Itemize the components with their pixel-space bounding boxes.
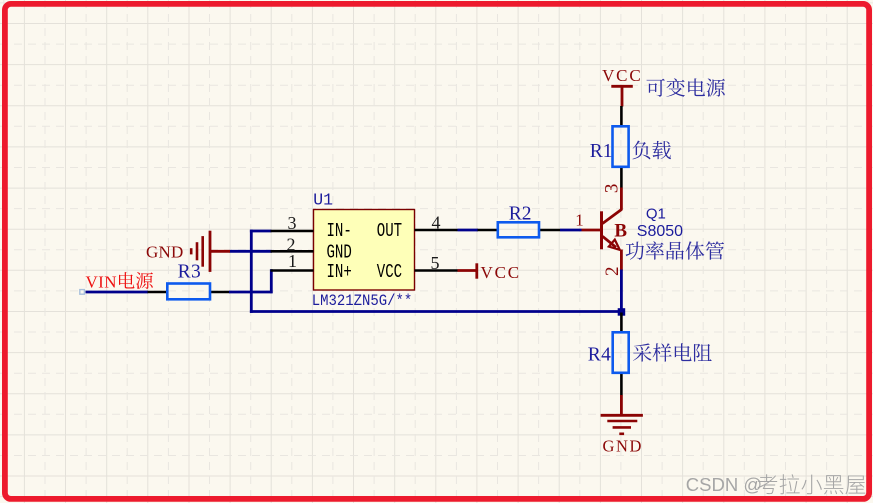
svg-text:R3: R3 xyxy=(178,262,202,283)
svg-text:3: 3 xyxy=(601,184,622,194)
op-amp U1 body xyxy=(314,210,415,291)
svg-text:OUT: OUT xyxy=(377,221,402,243)
svg-text:IN+: IN+ xyxy=(327,262,352,284)
resistor R1 xyxy=(590,106,629,188)
svg-text:1: 1 xyxy=(288,251,297,271)
transistor Q1 xyxy=(582,188,622,271)
wire xyxy=(229,291,273,294)
svg-text:VCC: VCC xyxy=(377,262,402,284)
svg-text:Q1: Q1 xyxy=(646,206,666,223)
svg-text:R2: R2 xyxy=(509,204,532,225)
wire xyxy=(270,269,273,293)
annotation 采样电阻 xyxy=(633,343,712,361)
op-amp U1 pin 2 xyxy=(271,235,314,255)
annotation 负载 xyxy=(633,141,671,160)
svg-text:CSDN @: CSDN @ xyxy=(686,474,762,495)
svg-text:2: 2 xyxy=(602,266,623,276)
ground GND (left, rotated) xyxy=(146,231,230,272)
svg-text:3: 3 xyxy=(288,213,297,233)
op-amp U1 pin 5 xyxy=(415,253,458,273)
svg-text:B: B xyxy=(614,221,627,242)
wire xyxy=(560,229,582,232)
wire xyxy=(250,230,253,313)
svg-text:5: 5 xyxy=(431,253,440,273)
wire xyxy=(458,229,479,232)
svg-text:R4: R4 xyxy=(588,344,612,365)
node VIN dangling end marker xyxy=(80,290,85,295)
annotation 功率晶体管 xyxy=(626,241,724,260)
wire xyxy=(250,230,272,233)
wire xyxy=(86,291,149,294)
watermark CSDN xyxy=(686,474,866,495)
op-amp U1 pin 4 xyxy=(415,213,458,233)
svg-text:VCC: VCC xyxy=(481,263,521,282)
svg-text:S8050: S8050 xyxy=(637,223,683,240)
wire xyxy=(620,270,623,313)
svg-text:LM321ZN5G/**: LM321ZN5G/** xyxy=(312,294,412,311)
wire xyxy=(230,250,273,253)
op-amp U1 pin 1 xyxy=(271,251,314,271)
power port VCC (top) xyxy=(602,66,642,107)
svg-text:IN-: IN- xyxy=(327,221,352,243)
power port VCC (pin 5) xyxy=(458,263,521,282)
svg-text:1: 1 xyxy=(575,211,584,230)
svg-text:4: 4 xyxy=(432,213,441,233)
resistor R2 xyxy=(478,204,561,238)
op-amp U1 pin 3 xyxy=(271,213,314,233)
svg-text:GND: GND xyxy=(146,243,183,262)
svg-text:GND: GND xyxy=(603,437,644,456)
svg-text:VIN: VIN xyxy=(86,273,117,292)
resistor R3 xyxy=(148,262,230,300)
resistor R4 xyxy=(588,313,629,396)
ground GND (bottom) xyxy=(601,395,643,456)
wire xyxy=(250,310,623,313)
svg-text:R1: R1 xyxy=(590,141,613,162)
annotation 可变电源 xyxy=(647,78,725,97)
svg-text:U1: U1 xyxy=(313,190,333,209)
net label VIN电源 xyxy=(86,272,153,291)
junction node xyxy=(618,308,626,316)
svg-text:VCC: VCC xyxy=(602,66,642,85)
